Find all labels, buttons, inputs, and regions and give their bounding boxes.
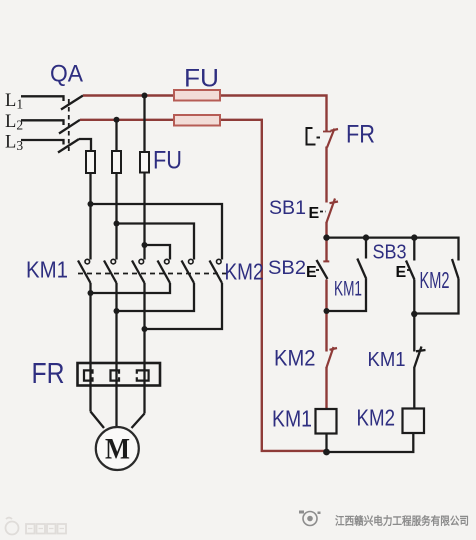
svg-text:FR: FR	[32, 358, 65, 390]
svg-text:KM1: KM1	[334, 278, 362, 301]
svg-text:E: E	[306, 264, 317, 281]
svg-text:M: M	[105, 433, 130, 466]
svg-text:QA: QA	[50, 61, 84, 88]
svg-text:KM2: KM2	[225, 259, 264, 285]
svg-text:SB2: SB2	[268, 257, 306, 279]
svg-text:KM2: KM2	[274, 346, 316, 371]
svg-text:KM2: KM2	[420, 267, 450, 293]
svg-text:KM1: KM1	[26, 257, 68, 283]
svg-text:SB3: SB3	[373, 242, 407, 264]
svg-text:SB1: SB1	[269, 197, 306, 219]
svg-text:KM2: KM2	[357, 405, 396, 431]
svg-text:江西赣兴电力工程服务有限公司: 江西赣兴电力工程服务有限公司	[335, 514, 469, 528]
svg-text:FU: FU	[184, 65, 219, 93]
svg-text:KM1: KM1	[272, 406, 312, 432]
svg-text:E: E	[396, 264, 407, 281]
svg-text:KM1: KM1	[368, 348, 406, 371]
svg-text:E: E	[309, 205, 320, 222]
svg-text:FU: FU	[153, 147, 182, 175]
svg-text:FR: FR	[346, 121, 375, 149]
